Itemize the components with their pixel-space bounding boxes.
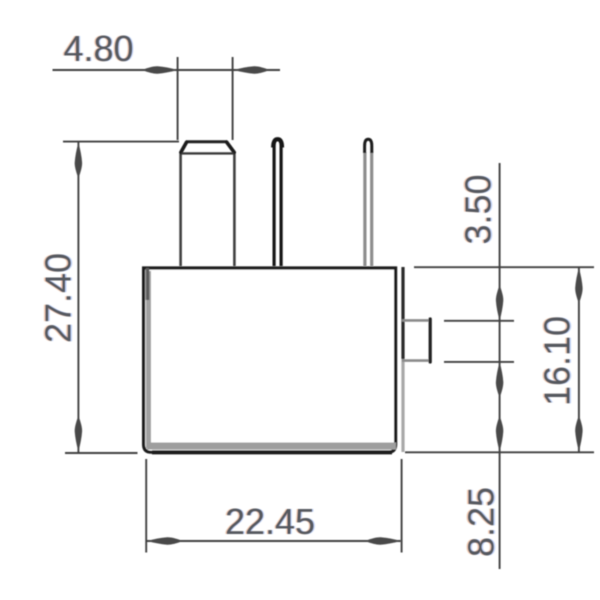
dim 22.45 arrow left bbox=[147, 537, 180, 544]
left pin right chamfer bbox=[227, 142, 235, 152]
left pin left side bbox=[179, 152, 182, 266]
svg-text:4.80: 4.80 bbox=[63, 28, 133, 69]
svg-text:8.25: 8.25 bbox=[461, 487, 502, 557]
dim 4.80 arrow pointing right bbox=[145, 66, 178, 73]
dim 16.10 arrow down bbox=[575, 418, 582, 451]
dim 8.25 arrow up to tab bottom bbox=[496, 362, 503, 395]
right pin top cap bbox=[365, 139, 372, 153]
side tab top edge bbox=[402, 319, 429, 322]
right pin right wall bbox=[370, 152, 373, 266]
dim 27.40 arrow down bbox=[75, 419, 82, 452]
left pin top edge bbox=[186, 140, 227, 143]
middle pin top cap bbox=[273, 139, 282, 147]
dim 4.80 extension line right bbox=[232, 57, 234, 140]
side tab bottom edge bbox=[402, 359, 429, 362]
svg-text:27.40: 27.40 bbox=[38, 253, 79, 343]
svg-text:16.10: 16.10 bbox=[537, 316, 578, 406]
left pin left chamfer bbox=[181, 142, 187, 152]
body bottom inner shading bbox=[147, 443, 396, 450]
left pin right side bbox=[233, 152, 236, 266]
dim 27.40 top extension line bbox=[63, 141, 179, 143]
body right outer edge line dark upper segment bbox=[401, 267, 404, 359]
dim 3.50 arrow down to tab top bbox=[496, 288, 503, 321]
dim 22.45 dimension line bbox=[147, 540, 401, 542]
body outline bbox=[144, 268, 396, 452]
dim 27.40 arrow up bbox=[75, 143, 82, 176]
dim 8.25 arrow down to body bottom bbox=[496, 419, 503, 452]
dim 16.10 arrow up bbox=[575, 268, 582, 301]
dim 4.80 dimension line bbox=[53, 69, 281, 71]
dim 22.45 right extension line bbox=[401, 459, 403, 553]
middle pin bbox=[274, 140, 281, 266]
body bottom edge emphasis bbox=[152, 450, 392, 454]
tab bottom extension line bbox=[444, 361, 514, 363]
dim 22.45 left extension line bbox=[145, 459, 147, 553]
dim 3.50 / 8.25 dimension line bbox=[499, 163, 501, 569]
body top right extension line bbox=[414, 266, 594, 268]
dim 22.45 arrow right bbox=[368, 537, 401, 544]
right pin left wall bbox=[363, 152, 366, 266]
dim 27.40 dimension line bbox=[77, 143, 79, 453]
side tab right edge bbox=[429, 319, 432, 362]
dim 27.40 bottom extension line bbox=[65, 452, 138, 454]
tab top extension line bbox=[444, 320, 514, 322]
body right outer edge line gray lower segment bbox=[401, 359, 404, 452]
svg-text:3.50: 3.50 bbox=[458, 174, 499, 244]
left pin inner shoulder line bbox=[182, 152, 234, 154]
body bottom right extension line bbox=[405, 451, 594, 453]
dim 4.80 arrow pointing left bbox=[234, 66, 267, 73]
svg-text:22.45: 22.45 bbox=[225, 501, 315, 542]
dim 4.80 extension line left bbox=[177, 57, 179, 140]
dim 16.10 dimension line bbox=[578, 267, 580, 451]
body left inner shading bbox=[146, 271, 151, 448]
body left inner shading dark top segment bbox=[146, 268, 150, 300]
